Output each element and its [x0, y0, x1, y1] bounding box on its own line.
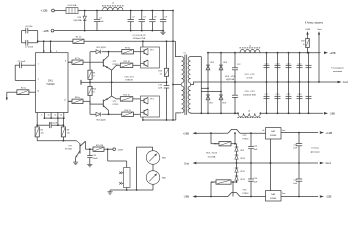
svg-text:R2 1к: R2 1к	[21, 87, 26, 89]
svg-text:КТ816: КТ816	[243, 193, 250, 195]
svg-text:C2,C3,C8,C9: C2,C3,C8,C9	[132, 35, 146, 37]
svg-text:-12В: -12В	[42, 29, 48, 33]
svg-text:14: 14	[54, 114, 56, 116]
svg-text:VD9: VD9	[240, 150, 244, 152]
svg-text:2: 2	[38, 79, 39, 81]
svg-text:15: 15	[48, 114, 50, 116]
svg-text:VD9...VD13: VD9...VD13	[206, 153, 218, 155]
svg-text:VD12: VD12	[240, 179, 245, 181]
svg-text:1мФ: 1мФ	[293, 147, 297, 150]
svg-text:C12: C12	[237, 64, 240, 66]
svg-text:Вых: Вых	[282, 130, 285, 132]
svg-text:10к: 10к	[67, 133, 70, 135]
svg-text:R9: R9	[93, 72, 95, 74]
svg-text:4,7мФ: 4,7мФ	[246, 77, 253, 80]
svg-text:1000мФ 63В: 1000мФ 63В	[243, 94, 256, 97]
svg-text:11: 11	[64, 100, 66, 102]
svg-text:клеммам: клеммам	[333, 71, 343, 73]
svg-text:8: 8	[65, 60, 66, 62]
svg-text:+12В: +12В	[326, 131, 333, 135]
svg-text:R12 10: R12 10	[123, 95, 131, 97]
svg-text:КТ8109: КТ8109	[125, 80, 133, 82]
svg-text:+26В: +26В	[305, 29, 311, 31]
svg-text:C7 22мФ: C7 22мФ	[25, 46, 34, 49]
svg-text:1мФ: 1мФ	[99, 20, 104, 23]
svg-text:VD11: VD11	[240, 171, 245, 173]
svg-text:C24: C24	[254, 146, 257, 148]
svg-text:C12...C15: C12...C15	[245, 74, 256, 76]
svg-text:VT3, VT4: VT3, VT4	[124, 76, 134, 78]
svg-text:+12В: +12В	[41, 9, 48, 13]
svg-text:R19: R19	[301, 41, 304, 43]
svg-text:Gnd: Gnd	[343, 80, 348, 84]
svg-text:КТ816: КТ816	[243, 139, 250, 141]
svg-text:VD5...VD8: VD5...VD8	[225, 76, 236, 78]
svg-text:Вх: Вх	[262, 130, 264, 132]
svg-text:R6: R6	[67, 129, 69, 131]
svg-text:1мФ: 1мФ	[293, 182, 297, 185]
svg-text:13: 13	[50, 51, 52, 53]
svg-text:C6 100н: C6 100н	[25, 26, 33, 28]
svg-text:VD10: VD10	[240, 158, 245, 160]
svg-text:R11 10: R11 10	[123, 61, 130, 63]
svg-text:4: 4	[41, 114, 42, 116]
svg-text:R8 1к: R8 1к	[75, 97, 80, 99]
svg-text:КРЕН8: КРЕН8	[270, 198, 276, 200]
svg-text:12: 12	[43, 51, 45, 53]
svg-text:C26: C26	[254, 178, 257, 180]
svg-text:КТ315Б: КТ315Б	[65, 149, 73, 151]
svg-text:16: 16	[37, 91, 39, 93]
svg-text:DA1: DA1	[48, 79, 53, 82]
svg-text:C16...C23: C16...C23	[245, 91, 256, 93]
svg-text:1: 1	[38, 64, 39, 66]
svg-text:9: 9	[56, 51, 57, 53]
svg-text:-26В: -26В	[184, 195, 190, 199]
svg-text:1мФ: 1мФ	[158, 87, 162, 90]
svg-text:10к: 10к	[41, 133, 44, 135]
svg-text:-26В: -26В	[329, 112, 335, 116]
svg-text:C25: C25	[294, 144, 297, 146]
svg-text:+26В: +26В	[183, 131, 189, 135]
svg-text:Gnd: Gnd	[326, 161, 332, 165]
svg-text:R9 51: R9 51	[125, 47, 131, 49]
svg-text:C5 1мФ: C5 1мФ	[18, 60, 26, 63]
svg-text:Gnd: Gnd	[184, 161, 189, 165]
svg-text:КД213А: КД213А	[74, 19, 82, 22]
svg-text:R7 1к: R7 1к	[75, 58, 80, 60]
svg-text:R1 15: R1 15	[76, 37, 82, 39]
svg-text:C27: C27	[294, 180, 297, 182]
svg-text:КРЕН8: КРЕН8	[270, 135, 276, 137]
svg-text:К выходным: К выходным	[331, 68, 344, 70]
svg-text:R10: R10	[93, 89, 96, 91]
svg-text:51: 51	[93, 76, 95, 78]
svg-text:VD3 Д220: VD3 Д220	[96, 120, 106, 122]
svg-text:КТ315: КТ315	[113, 104, 120, 106]
svg-text:R5: R5	[41, 129, 43, 131]
svg-text:FU1 10A: FU1 10A	[68, 4, 77, 7]
svg-text:R15 1М: R15 1М	[96, 145, 104, 147]
svg-text:220В: 220В	[118, 149, 124, 151]
svg-text:2200мФ 25В: 2200мФ 25В	[133, 37, 146, 40]
svg-text:C4 0,1мФ: C4 0,1мФ	[49, 121, 58, 124]
svg-text:TL494C: TL494C	[46, 83, 55, 86]
svg-text:R10 51: R10 51	[124, 110, 132, 112]
svg-text:КД213А: КД213А	[226, 78, 234, 81]
svg-text:-12В: -12В	[326, 195, 332, 199]
svg-text:47мФ: 47мФ	[92, 157, 98, 160]
svg-text:13: 13	[60, 114, 62, 116]
svg-text:VD2 Д220: VD2 Д220	[96, 47, 106, 49]
svg-text:1к: 1к	[303, 44, 305, 46]
svg-text:К блоку: К блоку	[311, 148, 319, 150]
svg-text:фильтров: фильтров	[310, 151, 320, 154]
svg-text:1мФ: 1мФ	[254, 148, 258, 151]
svg-text:+26В: +26В	[329, 51, 335, 55]
svg-text:Вых: Вых	[282, 193, 285, 195]
svg-text:КС156А: КС156А	[208, 155, 216, 158]
svg-text:1мФ: 1мФ	[254, 181, 258, 184]
svg-text:51: 51	[93, 92, 95, 94]
svg-text:К блоку защиты: К блоку защиты	[305, 21, 324, 24]
